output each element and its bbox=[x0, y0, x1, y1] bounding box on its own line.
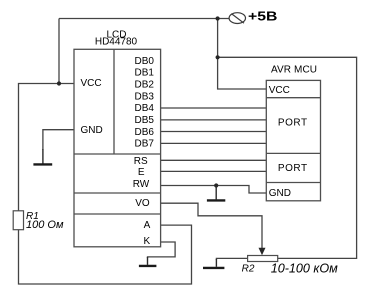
svg-text:GND: GND bbox=[269, 188, 291, 199]
svg-text:DB0: DB0 bbox=[134, 56, 154, 67]
svg-text:VCC: VCC bbox=[81, 78, 102, 89]
ground stem K net bbox=[147, 257, 149, 265]
svg-text:PORT: PORT bbox=[278, 117, 307, 128]
svg-text:VO: VO bbox=[135, 198, 150, 209]
ground stem RW net bbox=[215, 186, 217, 200]
resistor R1 bbox=[13, 211, 23, 230]
svg-text:+5В: +5В bbox=[248, 8, 277, 23]
wire R2 left terminal to ground bbox=[216, 258, 247, 260]
svg-text:HD44780: HD44780 bbox=[95, 37, 138, 48]
wire VO to R2 wiper bbox=[161, 203, 262, 249]
svg-text:RW: RW bbox=[133, 179, 150, 190]
wire top +5V rail bbox=[59, 18, 229, 20]
wire DB5 bbox=[161, 119, 267, 121]
wire vertical from +5V rail down to VCC branch bbox=[218, 19, 267, 90]
wire DB6 bbox=[161, 131, 267, 133]
wire from VCC node left and down to R1 top bbox=[19, 84, 60, 211]
junction dot right branch bbox=[216, 55, 220, 59]
svg-text:DB5: DB5 bbox=[134, 115, 154, 126]
ground under LCD GND bbox=[33, 163, 52, 165]
wire from R1 bottom down and along page bottom bbox=[19, 225, 192, 284]
AVR MCU box U2 bbox=[266, 80, 320, 200]
ground on R2 left terminal bbox=[203, 267, 224, 269]
svg-text:DB4: DB4 bbox=[134, 103, 154, 114]
svg-text:A: A bbox=[144, 220, 151, 231]
wire DB4 bbox=[161, 107, 267, 109]
svg-text:10-100 кОм: 10-100 кОм bbox=[271, 261, 338, 275]
wire DB7 bbox=[161, 142, 267, 144]
wire RS bbox=[161, 159, 267, 161]
wire branch to right-side rail down to R2 right terminal bbox=[218, 57, 357, 258]
junction dot RW ground bbox=[214, 183, 218, 187]
svg-text:DB2: DB2 bbox=[134, 80, 154, 91]
ground on K net bbox=[139, 265, 157, 267]
svg-text:DB6: DB6 bbox=[134, 127, 154, 138]
svg-text:VCC: VCC bbox=[269, 85, 290, 96]
ground stem R2 terminal bbox=[215, 259, 217, 267]
power terminal symbol bbox=[229, 13, 245, 24]
wire LCD GND to ground bbox=[43, 130, 74, 150]
arrowhead R2 wiper bbox=[259, 248, 266, 255]
svg-text:DB1: DB1 bbox=[134, 68, 154, 79]
wire E bbox=[161, 170, 267, 172]
svg-text:E: E bbox=[138, 167, 145, 178]
wire K to ground bbox=[148, 242, 176, 258]
junction dot LCD VCC node bbox=[57, 81, 61, 85]
wire RW to AVR GND bbox=[161, 186, 267, 194]
LCD box U1 bbox=[74, 49, 161, 247]
junction dot top rail bbox=[216, 16, 220, 20]
svg-text:DB7: DB7 bbox=[134, 139, 154, 150]
svg-text:R2: R2 bbox=[242, 264, 255, 275]
svg-text:DB3: DB3 bbox=[134, 91, 154, 102]
svg-text:PORT: PORT bbox=[278, 163, 307, 174]
svg-text:AVR MCU: AVR MCU bbox=[271, 65, 317, 76]
wire from top rail down-left to LCD VCC node bbox=[59, 19, 74, 84]
svg-text:RS: RS bbox=[134, 156, 148, 167]
svg-text:100 Ом: 100 Ом bbox=[26, 219, 64, 231]
svg-text:K: K bbox=[143, 236, 150, 247]
svg-text:GND: GND bbox=[81, 125, 103, 136]
potentiometer R2 body bbox=[248, 256, 278, 262]
ground stem LCD GND bbox=[42, 149, 44, 164]
ground on RW net bbox=[207, 199, 225, 201]
